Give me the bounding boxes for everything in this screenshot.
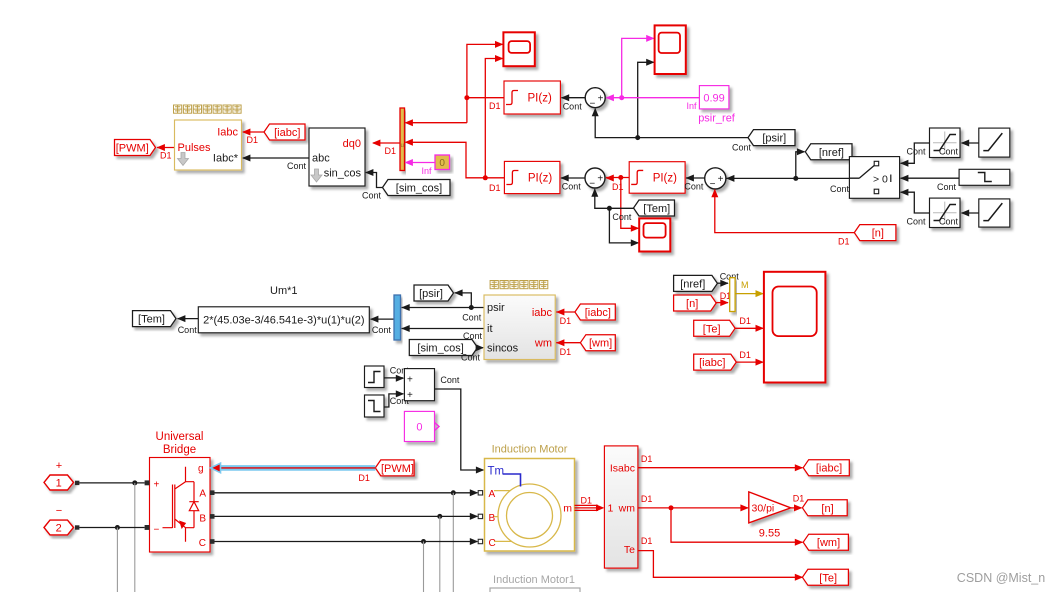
wire bridge B to motor B: [215, 513, 479, 520]
fcn title Um*1: [270, 285, 298, 297]
wire mux2 to fcn: [370, 316, 394, 335]
svg-text:[n]: [n]: [686, 298, 698, 310]
svg-text:[wm]: [wm]: [817, 537, 840, 549]
svg-text:[iabc]: [iabc]: [585, 307, 611, 319]
subsystem title (CJK): [174, 105, 242, 113]
svg-text:D1: D1: [838, 237, 850, 247]
wire iabc to Iabc: [242, 129, 264, 146]
svg-text:wm: wm: [534, 338, 552, 350]
from tag [sim_cos] top: [383, 180, 451, 196]
svg-text:C: C: [199, 538, 206, 549]
wire gain to goto n: [791, 494, 805, 512]
svg-text:+: +: [407, 374, 413, 385]
wire PI2 out to scope1 input2: [483, 55, 504, 193]
svg-text:Inf: Inf: [687, 101, 698, 111]
svg-text:[nref]: [nref]: [680, 278, 705, 290]
induction motor title: [492, 444, 568, 456]
universal bridge block: [145, 458, 215, 553]
highlighted wire PWM to g: [211, 463, 376, 483]
svg-text:iabc: iabc: [532, 307, 553, 319]
subsystem title CJK (flux angle calc): [490, 281, 548, 289]
svg-text:Cont: Cont: [178, 325, 198, 335]
label Induction Motor1: [493, 574, 575, 586]
svg-text:Cont: Cont: [462, 313, 482, 323]
svg-text:1: 1: [608, 503, 614, 515]
goto tag [Tem] mid: [133, 311, 177, 327]
svg-text:D1: D1: [641, 454, 653, 464]
svg-text:[iabc]: [iabc]: [274, 127, 300, 139]
svg-text:Induction Motor: Induction Motor: [492, 444, 568, 456]
svg-text:[sim_cos]: [sim_cos]: [396, 183, 442, 195]
wire Tem to sum2 and scope3: [591, 188, 639, 246]
svg-text:[nref]: [nref]: [819, 147, 844, 159]
svg-text:+: +: [56, 460, 62, 472]
scope4 (large): [764, 272, 826, 383]
pi controller PI2: [504, 161, 560, 193]
measurement line v2: [116, 528, 118, 592]
wire n to sum3 (red): [711, 189, 854, 247]
wire Pulses to PWM: [157, 144, 175, 161]
wire wm to flux block: [556, 339, 580, 357]
sum3 circle: [705, 168, 726, 190]
svg-text:−: −: [56, 505, 62, 517]
wire step3 to sum: [384, 366, 409, 382]
svg-text:sincos: sincos: [487, 343, 519, 355]
constant 0 (top): [435, 155, 450, 170]
wire sat2 to switch in3: [900, 189, 930, 227]
wire it out to mux: [401, 325, 484, 341]
svg-text:PI(z): PI(z): [528, 93, 552, 105]
input port 2: [44, 505, 79, 535]
svg-text:D1: D1: [560, 316, 572, 326]
wire sim_cos to sin_cos: [362, 169, 383, 201]
svg-text:Cont: Cont: [830, 184, 850, 194]
svg-text:Um*1: Um*1: [270, 285, 298, 297]
wire nref to mux3: [717, 272, 739, 287]
svg-text:[PWM]: [PWM]: [381, 463, 414, 475]
from tag [n] mid: [674, 295, 717, 311]
wire sum3 to PI3: [684, 175, 704, 192]
goto tag [iabc] bottom: [803, 460, 849, 476]
svg-text:D1: D1: [612, 182, 624, 192]
wire n to mux3: [716, 291, 731, 306]
svg-text:Cont: Cont: [287, 161, 307, 171]
from tag [iabc] mid2: [694, 354, 737, 370]
svg-text:2: 2: [56, 523, 62, 535]
wire psir_ref to sum1 (magenta): [606, 35, 700, 111]
svg-text:sin_cos: sin_cos: [324, 168, 362, 180]
svg-text:+: +: [407, 390, 413, 401]
measurement line vB: [439, 516, 441, 592]
svg-text:D1: D1: [160, 151, 172, 161]
fcn block: [198, 307, 369, 333]
wire Te to goto Te: [638, 536, 803, 581]
svg-text:Cont: Cont: [907, 147, 927, 157]
mux3 yellow bar: [730, 278, 735, 312]
ramp block 2: [979, 199, 1010, 227]
svg-text:−: −: [154, 525, 160, 536]
svg-text:[n]: [n]: [821, 503, 833, 515]
wire switch to sum3 and nref: [726, 148, 850, 194]
universal bridge title: [156, 431, 204, 456]
svg-text:g: g: [198, 464, 204, 475]
wire port2 to bridge-: [79, 525, 144, 530]
svg-text:PI(z): PI(z): [528, 173, 552, 185]
svg-text:Te: Te: [624, 544, 635, 556]
bus selector demux: [604, 446, 638, 568]
wire const0 to bar (magenta): [405, 159, 435, 176]
svg-text:Cont: Cont: [684, 182, 704, 192]
svg-text:Cont: Cont: [362, 191, 382, 201]
wire PI1 out to scope1 and bar: [464, 41, 504, 123]
svg-text:D1: D1: [489, 101, 501, 111]
wire bridge C to motor C: [215, 538, 479, 545]
svg-text:Inf: Inf: [422, 166, 433, 176]
svg-text:M: M: [741, 280, 749, 290]
svg-text:−: −: [589, 179, 595, 190]
svg-text:0: 0: [416, 422, 422, 434]
wire sat1 to switch in1: [900, 143, 930, 167]
from tag [PWM] bottom: [375, 460, 414, 476]
constant 0 (bottom): [404, 411, 439, 441]
from tag [iabc] mid: [575, 304, 615, 320]
wire bar to dq0: [372, 140, 400, 157]
svg-text:[wm]: [wm]: [589, 338, 612, 350]
svg-text:[PWM]: [PWM]: [116, 143, 149, 155]
wire ramp1 to sat1: [939, 140, 979, 157]
sum block (rect): [404, 369, 434, 401]
gray box (partial): [490, 588, 580, 592]
svg-text:[n]: [n]: [872, 228, 884, 240]
sum1 circle: [585, 88, 605, 110]
wire fcn to Tem: [177, 315, 198, 335]
svg-text:2*(45.03e-3/46.541e-3)*u(1)*u(: 2*(45.03e-3/46.541e-3)*u(1)*u(2): [203, 315, 364, 327]
wire port1 to bridge+: [79, 480, 144, 485]
watermark: [957, 571, 1045, 585]
svg-text:m: m: [563, 503, 572, 515]
svg-text:wm: wm: [618, 503, 636, 515]
wire abc to Iabc*: [242, 155, 309, 172]
svg-text:B: B: [199, 514, 206, 525]
sum2 circle: [585, 168, 605, 190]
goto tag [wm] bottom: [803, 534, 848, 550]
svg-text:Induction Motor1: Induction Motor1: [493, 574, 575, 586]
svg-text:Cont: Cont: [562, 182, 582, 192]
saturation block 1: [930, 128, 961, 158]
input port 1: [44, 460, 79, 490]
svg-text:Cont: Cont: [939, 147, 959, 157]
svg-text:A: A: [489, 489, 496, 500]
svg-text:[Te]: [Te]: [703, 323, 721, 335]
step block 4 (down): [365, 395, 385, 417]
svg-text:D1: D1: [581, 496, 593, 506]
svg-text:u: u: [401, 143, 404, 149]
pi controller PI3: [629, 162, 685, 194]
wire sum2 to PI2: [560, 175, 585, 192]
constant psir_ref 0.99: [698, 86, 736, 125]
svg-text:Tm: Tm: [488, 466, 505, 478]
from tag [sim_cos] mid: [409, 340, 477, 356]
wire psir to sum1 and scope2: [592, 59, 752, 153]
mux bar (blue): [394, 295, 401, 340]
svg-text:[Tem]: [Tem]: [138, 314, 165, 326]
wire ramp2 to sat2: [939, 210, 979, 227]
subsystem current hysteresis regulator: [175, 120, 242, 170]
measurement line v1: [134, 483, 136, 592]
svg-text:Bridge: Bridge: [163, 444, 196, 456]
svg-text:D1: D1: [385, 146, 397, 156]
goto tag [nref]: [805, 144, 852, 160]
scope3: [639, 218, 670, 251]
scope1: [503, 32, 534, 66]
wire iabc to scope4: [736, 350, 764, 366]
svg-text:CSDN @Mist_n: CSDN @Mist_n: [957, 571, 1045, 585]
svg-text:+: +: [597, 174, 603, 185]
induction motor block: [478, 459, 574, 552]
svg-text:abc: abc: [312, 153, 330, 165]
wire PI2 branch to bar input2: [405, 139, 486, 178]
from tag [psir] top: [748, 130, 795, 146]
pi controller PI1: [504, 81, 560, 114]
from tag [nref] mid: [674, 275, 718, 291]
wire step to switch in2: [900, 175, 959, 192]
svg-text:+: +: [718, 174, 724, 185]
svg-text:0.99: 0.99: [703, 93, 724, 105]
svg-text:D1: D1: [560, 347, 572, 357]
svg-text:[iabc]: [iabc]: [699, 357, 725, 369]
ramp block 1: [979, 128, 1010, 157]
step block 3 (up): [365, 366, 385, 388]
svg-text:A: A: [199, 489, 206, 500]
from tag [Te] mid: [694, 320, 735, 336]
wire sum1 to PI1: [561, 94, 585, 111]
svg-text:+: +: [598, 93, 604, 104]
svg-text:dq0: dq0: [343, 138, 361, 150]
svg-text:D1: D1: [247, 135, 259, 145]
svg-text:B: B: [489, 513, 496, 524]
svg-text:Cont: Cont: [907, 217, 927, 227]
svg-text:D1: D1: [793, 494, 805, 504]
svg-text:Cont: Cont: [612, 212, 632, 222]
svg-text:Cont: Cont: [440, 375, 460, 385]
svg-text:[sim_cos]: [sim_cos]: [417, 343, 463, 355]
measurement line vA: [452, 493, 454, 592]
svg-text:Universal: Universal: [156, 431, 204, 443]
svg-text:0: 0: [439, 158, 445, 169]
svg-text:[psir]: [psir]: [419, 288, 443, 300]
goto tag [Te] bottom: [802, 569, 848, 585]
svg-text:+: +: [154, 480, 160, 491]
mux selector bar (orange): [400, 108, 405, 171]
svg-text:Iabc: Iabc: [217, 127, 238, 139]
svg-text:psir: psir: [487, 302, 505, 314]
goto tag [PWM]: [115, 140, 156, 156]
wire bridge A to motor A: [215, 489, 479, 496]
svg-text:Cont: Cont: [372, 325, 392, 335]
wire Isabc to goto iabc: [638, 454, 803, 471]
wire sum to Tm: [435, 375, 485, 473]
svg-text:−: −: [710, 179, 716, 190]
from tag [wm] mid: [580, 335, 615, 351]
svg-text:Cont: Cont: [939, 217, 959, 227]
svg-text:[iabc]: [iabc]: [816, 463, 842, 475]
svg-text:C: C: [489, 538, 496, 549]
svg-text:Cont: Cont: [563, 102, 583, 112]
svg-text:[psir]: [psir]: [762, 133, 786, 145]
svg-text:Cont: Cont: [732, 143, 752, 153]
wire iabc to flux block: [556, 309, 575, 327]
wire sim_cos to sincos: [461, 344, 484, 362]
svg-text:it: it: [487, 323, 493, 335]
svg-text:D1: D1: [739, 316, 751, 326]
svg-text:PI(z): PI(z): [653, 173, 677, 185]
svg-text:psir_ref: psir_ref: [698, 113, 736, 125]
saturation block 2: [930, 198, 961, 227]
svg-text:Cont: Cont: [461, 353, 481, 363]
switch block > 0: [849, 157, 899, 199]
svg-text:D1: D1: [489, 183, 501, 193]
from tag [n] top: [854, 225, 896, 241]
wire PI1 branch to bar input1: [405, 119, 467, 126]
from tag [Tem] top: [634, 200, 675, 216]
svg-text:1: 1: [56, 478, 62, 490]
wire psir out to mux and goto: [401, 289, 484, 322]
wire Te to scope4: [735, 316, 764, 332]
measurement line vC: [423, 542, 425, 592]
bus m to demux (triple line): [575, 496, 605, 512]
svg-text:[Te]: [Te]: [819, 572, 837, 584]
svg-text:−: −: [589, 98, 595, 109]
svg-text:Cont: Cont: [937, 182, 957, 192]
svg-text:D1: D1: [641, 536, 653, 546]
wire PI3 out to sum2 and scope3: [605, 175, 639, 232]
svg-text:Isabc: Isabc: [610, 463, 635, 475]
svg-text:D1: D1: [739, 350, 751, 360]
gain 30/pi: [749, 492, 791, 540]
svg-text:[Tem]: [Tem]: [643, 203, 670, 215]
subsystem flux angle calc: [484, 295, 555, 360]
wire wm to gain and goto wm: [638, 494, 803, 546]
svg-text:30/pi: 30/pi: [752, 503, 775, 515]
wire step4 to sum: [384, 390, 409, 407]
step block (middle): [959, 169, 1010, 185]
goto tag [n] bottom: [802, 500, 847, 516]
svg-text:9.55: 9.55: [759, 528, 780, 540]
goto tag [psir] mid: [414, 285, 454, 301]
svg-text:D1: D1: [641, 494, 653, 504]
wire mux3 to scope4 (yellow): [735, 280, 764, 297]
svg-text:Iabc*: Iabc*: [213, 153, 239, 165]
svg-text:D1: D1: [358, 473, 370, 483]
block dq0 to abc: [309, 128, 365, 186]
from tag [iabc]: [264, 124, 305, 140]
scope2: [655, 25, 686, 74]
svg-text:> 0: > 0: [873, 174, 888, 186]
